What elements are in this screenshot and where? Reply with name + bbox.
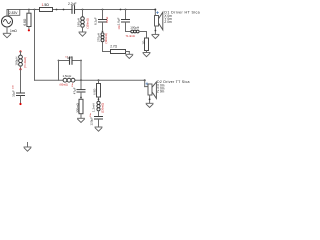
ground under 180uH bbox=[79, 32, 86, 36]
ground branch A bbox=[126, 54, 133, 58]
svg-text:270µH: 270µH bbox=[96, 33, 100, 42]
wire feeder to woofer rail bbox=[34, 10, 36, 81]
svg-text:(60mΩ): (60mΩ) bbox=[60, 84, 69, 87]
capacitor 2.2uF series bbox=[68, 2, 77, 13]
inductor 270uH bbox=[96, 33, 108, 52]
wire D2 to ground bbox=[149, 95, 151, 103]
svg-text:2.7Ω: 2.7Ω bbox=[110, 44, 117, 48]
svg-text:Z 0m: Z 0m bbox=[157, 90, 165, 94]
open pin red dot bbox=[28, 29, 30, 31]
capacitor 47uF branch C bbox=[72, 80, 85, 99]
wire woofer rail bbox=[35, 79, 145, 81]
svg-text:10m: 10m bbox=[72, 83, 74, 87]
wire LC top rail bbox=[59, 60, 70, 62]
node dot bbox=[63, 9, 65, 11]
plus mark D1 bbox=[157, 12, 159, 14]
wire to ground bbox=[126, 51, 130, 53]
svg-text:(130mΩ): (130mΩ) bbox=[101, 103, 105, 113]
svg-text:120µF: 120µF bbox=[89, 117, 93, 126]
node dot LC right top bbox=[80, 60, 82, 62]
svg-text:2.2µF: 2.2µF bbox=[68, 2, 77, 6]
svg-text:180µH: 180µH bbox=[76, 18, 80, 27]
node dot feeder junction bbox=[34, 9, 36, 11]
node dot woofer junction bbox=[144, 79, 146, 81]
node dot coil branch bbox=[82, 9, 84, 11]
svg-text:10mΩ: 10mΩ bbox=[107, 17, 109, 23]
open pin red dot floating bottom bbox=[19, 103, 21, 105]
capacitor 120uF bbox=[89, 113, 102, 127]
inductor 1.2mH bbox=[91, 101, 104, 113]
svg-text:8.2µF: 8.2µF bbox=[94, 17, 98, 25]
svg-text:10m: 10m bbox=[13, 85, 15, 89]
wire corner to resistor bbox=[103, 51, 111, 53]
svg-text:10m: 10m bbox=[90, 113, 92, 117]
resistor 300mOhm bbox=[75, 99, 83, 113]
resistor 1 Ohm bbox=[141, 38, 148, 51]
speaker D2 Driver TT bbox=[148, 82, 156, 99]
inductor 100uH bbox=[126, 26, 140, 38]
node dot LC left top bbox=[58, 60, 60, 62]
resistor 6.8 Ohm (open bottom) bbox=[23, 10, 31, 30]
svg-text:(190mΩ): (190mΩ) bbox=[104, 33, 108, 43]
node dot resistor R open top bbox=[28, 9, 30, 11]
svg-text:(71.4mΩ): (71.4mΩ) bbox=[23, 57, 27, 68]
node dot D2 minus pin bbox=[149, 98, 151, 100]
node dot branch A pin bbox=[102, 30, 104, 32]
ground branch B bbox=[143, 53, 150, 57]
svg-text:10m: 10m bbox=[119, 25, 121, 30]
svg-text:1.5mH: 1.5mH bbox=[63, 74, 72, 78]
node dot branch B bbox=[125, 9, 127, 11]
text block D2 bbox=[157, 80, 190, 93]
svg-text:1mΩ: 1mΩ bbox=[10, 29, 17, 33]
ground D1 bbox=[152, 34, 159, 38]
wire to coil bbox=[126, 31, 131, 33]
inductor 180uH shunt bbox=[76, 10, 89, 32]
svg-text:71.4mΩ: 71.4mΩ bbox=[126, 34, 135, 38]
ground under source bbox=[3, 33, 11, 38]
wire D1 to ground bbox=[154, 26, 156, 34]
node dot branch D bbox=[98, 79, 100, 81]
svg-text:1µF: 1µF bbox=[67, 55, 73, 59]
ground D2 bbox=[146, 103, 153, 107]
node dot branch A bbox=[102, 9, 104, 11]
resistor 1.5 Ohm series bbox=[40, 3, 53, 12]
node dot D1 minus pin bbox=[155, 30, 157, 32]
wire LC bypass right riser bbox=[80, 61, 82, 81]
svg-text:300mΩ: 300mΩ bbox=[75, 102, 79, 113]
inductor 1.5mH on rail bbox=[60, 74, 75, 87]
node dot branch D pin bbox=[98, 98, 100, 100]
svg-text:6.8Ω: 6.8Ω bbox=[92, 88, 96, 95]
wire coil to resistor 1 Ohm bbox=[139, 31, 146, 33]
svg-text:Z 0m: Z 0m bbox=[164, 20, 172, 24]
svg-text:100µH: 100µH bbox=[130, 26, 139, 30]
speaker D1 Driver HT bbox=[155, 12, 163, 30]
svg-text:47µF: 47µF bbox=[73, 87, 77, 94]
ground branch C bbox=[78, 118, 85, 122]
lone ground symbol bbox=[24, 143, 31, 152]
svg-text:2.83V: 2.83V bbox=[9, 11, 18, 15]
resistor 6.8 Ohm branch D bbox=[92, 80, 100, 97]
svg-text:1.8µF: 1.8µF bbox=[117, 17, 121, 25]
plus mark D2 bbox=[146, 83, 148, 85]
wire rail corner to tweeter bbox=[154, 10, 156, 16]
node dot bbox=[120, 9, 122, 11]
wire LC bypass left riser bbox=[58, 61, 60, 81]
svg-text:1.5Ω: 1.5Ω bbox=[42, 3, 50, 7]
wire top rail bbox=[7, 9, 155, 11]
inductor 180uH floating bbox=[14, 52, 27, 69]
capacitor 1uF branch B bbox=[117, 10, 130, 32]
open pin red dot floating coil top bbox=[19, 50, 21, 52]
voltage source V1 2.83V bbox=[2, 16, 13, 27]
wire source top lead bbox=[6, 10, 8, 17]
wire rail corner to woofer bbox=[144, 80, 146, 86]
node dot branch C pin bbox=[80, 97, 82, 99]
capacitor 33uF floating bbox=[12, 69, 25, 103]
svg-text:6.8Ω: 6.8Ω bbox=[23, 18, 27, 25]
capacitor 1uF parallel bbox=[65, 55, 72, 64]
node dot branch C bbox=[80, 79, 82, 81]
node dot bbox=[56, 9, 58, 11]
svg-text:180µH: 180µH bbox=[14, 57, 18, 66]
svg-text:33µF: 33µF bbox=[12, 90, 16, 97]
resistor 2.7 Ohm bbox=[110, 44, 125, 53]
capacitor 8.2uF bbox=[94, 10, 109, 30]
svg-text:(150mΩ): (150mΩ) bbox=[86, 18, 90, 28]
node dot rail corner bbox=[154, 9, 156, 11]
text block D1 bbox=[164, 10, 200, 24]
ground branch D bbox=[95, 127, 102, 131]
label box 2.83V bbox=[8, 10, 19, 16]
wire source bottom lead bbox=[6, 27, 8, 33]
svg-text:1.2mH: 1.2mH bbox=[91, 103, 95, 112]
open pin red dot floating mid bbox=[19, 68, 21, 70]
